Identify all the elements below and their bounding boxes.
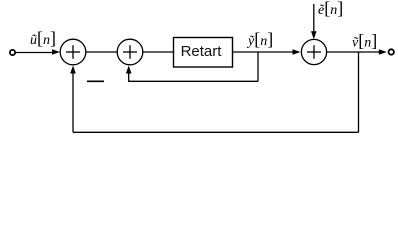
svg-text:ẽ[n]: ẽ[n] xyxy=(318,0,343,18)
svg-text:Retart: Retart xyxy=(181,43,223,60)
